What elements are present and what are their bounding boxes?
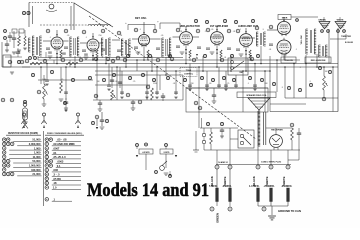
- wire vertical: [175, 71, 177, 95]
- capacitor: [220, 130, 224, 131]
- capacitor: [134, 47, 138, 48]
- svg-text:.05: .05: [211, 29, 214, 31]
- table condenser row extra: [45, 198, 49, 202]
- node: [200, 76, 203, 79]
- antenna trimmer circle: [49, 4, 54, 9]
- ground: [180, 52, 185, 54]
- svg-text:.0007: .0007: [53, 146, 60, 150]
- tube V5 78 1st audio: [211, 29, 224, 46]
- resistor cathode: [189, 50, 191, 58]
- trimmer symbol A: [43, 116, 45, 121]
- transformer F1 antenna coil: [32, 36, 41, 56]
- svg-text:.05: .05: [59, 57, 62, 59]
- ground to can symbol: [268, 216, 276, 220]
- svg-text:1M: 1M: [325, 71, 328, 73]
- svg-text:.01: .01: [147, 57, 150, 59]
- resistor R7: [66, 62, 78, 65]
- resistor R13: [291, 128, 294, 140]
- interlock switch: [160, 166, 165, 171]
- wire vertical: [242, 71, 244, 112]
- node pin 7: [153, 29, 157, 33]
- svg-text:1.0 MFD.: 1.0 MFD.: [249, 184, 260, 188]
- ground: [136, 52, 141, 54]
- tube V8 42 output: [277, 38, 291, 56]
- wire plate lead: [132, 38, 138, 40]
- node: [220, 58, 224, 62]
- wire: [5, 56, 22, 58]
- ground: [253, 89, 256, 91]
- capacitor: [206, 48, 210, 49]
- svg-text:TONE: TONE: [186, 70, 192, 72]
- node: [123, 58, 127, 62]
- wire vertical: [40, 67, 42, 84]
- wire vertical: [269, 71, 271, 112]
- svg-text:A: A: [216, 51, 218, 55]
- wire: [257, 150, 259, 165]
- svg-text:.25-.25-1.0: .25-.25-1.0: [53, 155, 66, 159]
- svg-text:Models 14 and 91: Models 14 and 91: [87, 181, 209, 201]
- antenna loop L1 (dashed): [29, 2, 74, 4]
- junction: [185, 63, 187, 65]
- svg-text:2,000,000: 2,000,000: [29, 142, 41, 146]
- wire: [147, 58, 149, 61]
- dial cord dashed: [40, 24, 88, 26]
- tube V1 78 R.F.: [51, 35, 63, 51]
- node terminal: [256, 165, 260, 169]
- node: [298, 88, 301, 91]
- junction: [198, 66, 200, 68]
- node: [192, 58, 196, 62]
- tube V6 42 driver: [240, 31, 253, 48]
- junction: [175, 70, 177, 72]
- transformer F6 i.f. #3: [256, 32, 265, 46]
- node: [128, 76, 131, 79]
- wire: [260, 46, 262, 64]
- arrow terminal: [175, 155, 177, 157]
- wire: [92, 51, 94, 60]
- wire bus rail 5: [95, 74, 183, 76]
- wire: [96, 58, 98, 61]
- capacitor C10: [98, 103, 102, 104]
- wire antenna diagonal: [74, 3, 113, 27]
- junction: [260, 63, 262, 65]
- junction: [156, 66, 158, 68]
- wire plate lead: [80, 42, 87, 44]
- ground: [42, 104, 47, 106]
- svg-text:.3 - .5: .3 - .5: [53, 173, 60, 177]
- junction: [305, 63, 307, 65]
- table resistor row 4: [2, 151, 6, 155]
- node pin 4: [101, 29, 105, 33]
- wire: [37, 56, 39, 60]
- svg-text:.1: .1: [195, 57, 197, 59]
- junction: [65, 66, 67, 68]
- capacitor: [234, 85, 238, 86]
- svg-text:.01: .01: [173, 83, 176, 85]
- ground: [239, 54, 244, 56]
- node: [63, 101, 66, 104]
- trimmer symbol A: [77, 116, 79, 121]
- capacitor C12: [161, 96, 165, 97]
- junction: [254, 63, 256, 65]
- wire: [136, 147, 138, 149]
- svg-text:2M: 2M: [191, 83, 194, 85]
- wire vertical: [189, 64, 191, 89]
- svg-text:.1: .1: [49, 37, 51, 39]
- wire: [182, 75, 184, 100]
- wire: [189, 58, 191, 61]
- ground: [188, 89, 191, 91]
- capacitor: [174, 92, 178, 93]
- arrow terminal: [136, 155, 138, 157]
- tube V3 78 I.F.: [138, 32, 149, 47]
- capacitor C15: [297, 133, 301, 134]
- capacitor: [176, 46, 180, 47]
- junction: [46, 63, 48, 65]
- ground: [23, 48, 27, 50]
- svg-text:.01: .01: [53, 151, 57, 155]
- node pin 3: [82, 30, 86, 34]
- wire: [105, 56, 107, 64]
- node: [136, 144, 139, 147]
- wire: [125, 56, 127, 67]
- wire plate lead: [112, 39, 120, 41]
- cluster above table: [95, 115, 99, 119]
- ground: [48, 56, 53, 58]
- capacitor: [188, 85, 192, 86]
- antenna loop left leads: [28, 3, 30, 28]
- node: [206, 122, 209, 125]
- wire vertical: [254, 64, 256, 89]
- node: [205, 20, 208, 23]
- ground left1: [12, 52, 16, 54]
- svg-text:.01: .01: [269, 49, 272, 51]
- ground: [145, 97, 148, 99]
- table resistor row 6: [2, 159, 6, 163]
- ac cord: [195, 131, 197, 150]
- wire vertical: [264, 71, 266, 112]
- node pin 14: [269, 25, 273, 29]
- node: [322, 97, 326, 101]
- table resistor row 9: [2, 172, 6, 176]
- node: [23, 100, 26, 103]
- svg-text:.250MFD.: .250MFD.: [264, 184, 275, 188]
- wire right vertical: [337, 28, 339, 112]
- transformer F3 osc coil: [101, 38, 110, 56]
- power switch box: [238, 130, 254, 148]
- svg-text:RECTIFIER: RECTIFIER: [271, 130, 283, 132]
- capacitor: [217, 85, 221, 86]
- node pin 8: [176, 28, 180, 32]
- node: [234, 20, 237, 23]
- wire: [230, 56, 232, 71]
- wire vertical: [225, 71, 227, 88]
- capacitor: [236, 49, 240, 50]
- node: [116, 56, 120, 60]
- wire grid cap: [283, 17, 285, 21]
- wire vertical: [146, 71, 148, 100]
- svg-text:8 MFD: 8 MFD: [164, 152, 170, 154]
- wire: [220, 58, 222, 61]
- wire plate lead: [173, 36, 181, 38]
- svg-text:1,000: 1,000: [34, 146, 41, 150]
- condenser bar C20: [216, 188, 219, 202]
- svg-text:YELLOW: YELLOW: [301, 36, 303, 45]
- wire vertical: [116, 67, 118, 100]
- junction: [202, 70, 204, 72]
- svg-text:1,000,000: 1,000,000: [29, 164, 41, 168]
- capacitor: [155, 92, 159, 93]
- node: [168, 54, 171, 57]
- svg-text:.01: .01: [79, 57, 82, 59]
- svg-text:SPEAKER FIELD COIL: SPEAKER FIELD COIL: [246, 94, 267, 97]
- svg-text:.05: .05: [67, 35, 70, 37]
- label boxes top-left: [12, 29, 17, 33]
- junction: [143, 59, 145, 61]
- label RED-BROWN box: [305, 57, 331, 63]
- ground: [174, 97, 177, 99]
- wire bus rail 4: [95, 70, 270, 72]
- capacitor: [64, 92, 68, 93]
- svg-text:FIXED CONDENSER VALUES (MFD.): FIXED CONDENSER VALUES (MFD.): [47, 132, 83, 135]
- wire: [216, 45, 218, 67]
- antenna loop right leads: [70, 6, 72, 30]
- resistor R5 volume pot: [43, 84, 48, 99]
- wire: [145, 154, 147, 170]
- capacitor: [8, 36, 12, 37]
- wire: [229, 128, 231, 139]
- ground: [5, 50, 9, 52]
- capacitor: [205, 85, 209, 86]
- wire plate lead: [267, 29, 277, 31]
- node: [183, 78, 186, 81]
- capacitor: [64, 102, 68, 103]
- capacitor: [5, 44, 9, 45]
- capacitor: [227, 48, 231, 49]
- node: [152, 78, 155, 81]
- capacitor: [101, 49, 105, 50]
- svg-text:51M: 51M: [153, 83, 157, 85]
- tube V2 6A7 det-osc: [87, 37, 99, 53]
- node ant terminals: [22, 11, 25, 14]
- node: [318, 66, 321, 69]
- svg-text:.1: .1: [139, 29, 141, 31]
- svg-text:.1: .1: [239, 29, 241, 31]
- junction: [316, 66, 318, 68]
- wire grid cap: [216, 26, 218, 30]
- node: [169, 175, 172, 178]
- svg-text:21,000: 21,000: [32, 172, 41, 176]
- coil L2 r.f. choke: [88, 24, 110, 26]
- ground: [155, 97, 158, 99]
- capacitor C-left1: [12, 38, 16, 39]
- node terminal: [210, 207, 214, 211]
- wire plate lead: [210, 36, 224, 38]
- capacitor: [120, 92, 124, 93]
- wire left rail: [22, 66, 30, 68]
- node: [111, 59, 115, 63]
- wire bus rail 2: [30, 63, 338, 65]
- junction: [276, 59, 278, 61]
- node: [29, 57, 32, 60]
- junction: [165, 74, 167, 76]
- wire: [200, 127, 238, 129]
- wire vertical: [305, 55, 307, 98]
- junction: [269, 70, 271, 72]
- speaker tweeter 1: [319, 22, 330, 30]
- capacitor: [45, 80, 49, 81]
- wire vertical: [69, 60, 71, 67]
- node: [141, 73, 144, 76]
- condenser bar C21: [229, 188, 232, 202]
- node left b: [1, 98, 5, 102]
- junction: [245, 70, 247, 72]
- condenser bar C24: [287, 188, 290, 202]
- wire: [230, 138, 238, 140]
- node: [272, 82, 275, 85]
- junction: [293, 63, 295, 65]
- table divider: [42, 131, 44, 206]
- wire: [143, 46, 145, 60]
- node: [222, 76, 225, 79]
- wire: [216, 169, 218, 188]
- junction: [125, 66, 127, 68]
- svg-text:.250MFD.: .250MFD.: [281, 184, 292, 188]
- node: [71, 78, 74, 81]
- wire: [43, 75, 45, 84]
- node left a: [8, 60, 12, 64]
- wire vertical: [206, 71, 208, 88]
- wire: [111, 67, 113, 88]
- wire: [328, 29, 330, 45]
- ground: [164, 173, 169, 175]
- wire: [38, 79, 93, 81]
- svg-text:.25MFD.: .25MFD.: [222, 184, 232, 188]
- junction: [105, 63, 107, 65]
- svg-text:.1: .1: [101, 57, 103, 59]
- svg-text:.5: .5: [309, 81, 311, 83]
- capacitor: [82, 50, 86, 51]
- wire: [60, 58, 62, 61]
- ground: [98, 109, 103, 111]
- transformer F7 output: [306, 29, 316, 54]
- shield can top 1: [128, 25, 155, 31]
- table condenser row 8: [45, 168, 49, 172]
- capacitor: [145, 92, 149, 93]
- wire: [216, 202, 218, 207]
- transformer F8 tweeter coupling: [319, 45, 328, 57]
- junction: [92, 59, 94, 61]
- resistor cathode: [249, 50, 251, 58]
- node: [156, 58, 160, 62]
- condenser bar C22: [257, 188, 260, 202]
- ground: [224, 89, 227, 91]
- wire plate lead: [240, 37, 255, 39]
- resistor R-left1: [18, 36, 21, 46]
- svg-text:1,000: 1,000: [34, 151, 41, 155]
- wire grid cap: [92, 33, 94, 37]
- svg-text:.25: .25: [61, 79, 64, 81]
- table condenser row 5: [45, 155, 49, 159]
- shield can top 2: [160, 23, 180, 29]
- wire vertical: [235, 75, 237, 88]
- wire vertical: [108, 64, 110, 86]
- arrow terminal: [169, 174, 171, 176]
- wire plate lead: [150, 38, 161, 40]
- ground: [210, 52, 215, 54]
- junction: [323, 66, 325, 68]
- wire vertical: [218, 67, 220, 88]
- coil small left: [29, 38, 31, 52]
- wire plate lead: [99, 42, 103, 44]
- svg-text:.006: .006: [53, 168, 59, 172]
- svg-text:GREEN: GREEN: [216, 213, 220, 223]
- svg-text:51,000: 51,000: [32, 138, 41, 142]
- svg-text:.05 - .08: .05 - .08: [57, 138, 67, 142]
- wire: [185, 45, 187, 64]
- speaker cone: [248, 98, 270, 110]
- svg-text:8M: 8M: [265, 83, 268, 85]
- junction: [136, 59, 138, 61]
- wire vertical: [65, 67, 67, 100]
- node: [88, 76, 91, 79]
- svg-text:GREEN: GREEN: [318, 20, 326, 22]
- wire: [285, 97, 338, 99]
- resistor R9 pot: [111, 90, 116, 100]
- ground: [64, 110, 67, 112]
- svg-text:.05: .05: [123, 57, 126, 59]
- svg-text:.25: .25: [227, 83, 230, 85]
- svg-text:.01: .01: [224, 57, 227, 59]
- capacitor: [269, 44, 273, 45]
- svg-text:RESISTOR VALUES (OHMS): RESISTOR VALUES (OHMS): [8, 132, 38, 135]
- resistor: [24, 36, 26, 46]
- wire rail extra: [38, 57, 183, 59]
- svg-text:4.5 MFD: 4.5 MFD: [142, 151, 150, 154]
- table resistor row 1: [2, 138, 6, 142]
- node: [37, 90, 41, 94]
- svg-text:RED & BROWN: RED & BROWN: [311, 60, 326, 62]
- ground: [107, 89, 110, 91]
- wire: [275, 128, 277, 135]
- junction: [264, 70, 266, 72]
- svg-text:.1: .1: [295, 49, 297, 51]
- svg-text:50M: 50M: [42, 79, 46, 81]
- table condenser row 7: [45, 164, 49, 168]
- svg-text:.05: .05: [249, 57, 252, 59]
- wire grid cap: [245, 28, 247, 32]
- resistor cathode: [96, 50, 98, 58]
- wire power rail: [204, 149, 300, 151]
- svg-text:1 AND 2 SPKR. PLUG: 1 AND 2 SPKR. PLUG: [261, 161, 282, 164]
- transformer F4 i.f. #1: [121, 39, 130, 56]
- svg-text:14 AND 91: 14 AND 91: [218, 161, 229, 164]
- resistor R8: [30, 62, 42, 65]
- table condenser row 1: [45, 138, 49, 142]
- svg-text:A: A: [245, 52, 247, 56]
- capacitor: [117, 50, 121, 51]
- svg-text:.25: .25: [133, 81, 136, 83]
- table resistor row 3: [2, 146, 6, 150]
- svg-text:.1: .1: [204, 31, 206, 33]
- ground: [59, 99, 64, 101]
- wire: [1, 42, 3, 67]
- svg-text:WHITE: WHITE: [337, 20, 344, 22]
- node: [194, 19, 197, 22]
- svg-text:.5: .5: [262, 29, 264, 31]
- node: [211, 78, 214, 81]
- wire: [74, 56, 76, 67]
